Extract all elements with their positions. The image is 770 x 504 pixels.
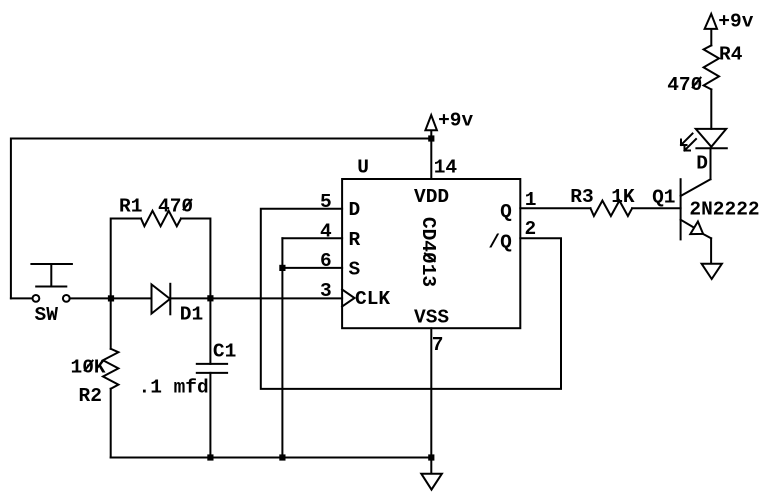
svg-text:6: 6	[320, 250, 332, 272]
wire R3 to Q1 base	[632, 207, 681, 209]
svg-text:CD4013: CD4013	[417, 217, 439, 287]
zero slash 470 R4	[693, 78, 701, 88]
node junction SW/R1/R2	[108, 295, 114, 301]
svg-text:470: 470	[667, 74, 702, 96]
svg-text:D1: D1	[180, 303, 203, 325]
resistor R2	[103, 298, 118, 457]
svg-text:4: 4	[320, 221, 332, 243]
wire pin6 S	[282, 267, 342, 269]
svg-text:.1 mfd: .1 mfd	[139, 376, 209, 398]
zero slash 470 R1	[184, 200, 192, 210]
label CD4013 (rotated)	[417, 217, 439, 287]
wire R/S tie vertical to ground rail	[281, 238, 283, 457]
svg-text:1K: 1K	[611, 186, 635, 208]
node R/S tie	[279, 265, 285, 271]
wire pin4 R	[282, 237, 342, 239]
resistor R4	[704, 29, 719, 129]
svg-text:U: U	[357, 157, 369, 179]
capacitor C1	[197, 298, 227, 457]
wire emitter to ground	[710, 238, 712, 263]
power +9v arrow (IC)	[425, 115, 437, 130]
svg-text:R4: R4	[719, 44, 743, 66]
svg-text:Q1: Q1	[652, 187, 675, 209]
svg-text:D: D	[349, 199, 361, 221]
transistor Q1	[681, 179, 712, 239]
node junction D1/R1/C1	[207, 295, 213, 301]
node C1/rail	[207, 454, 213, 460]
switch SW	[31, 264, 72, 302]
zero slash 10K	[85, 361, 93, 371]
svg-text:CLK: CLK	[355, 288, 390, 310]
ground (bottom)	[421, 474, 442, 490]
power +9v arrow (R4)	[705, 14, 717, 29]
wire pin5 D feedback	[261, 209, 561, 389]
svg-text:/Q: /Q	[488, 232, 512, 254]
svg-text:2N2222: 2N2222	[689, 199, 759, 221]
svg-text:Q: Q	[500, 201, 512, 223]
svg-text:+9v: +9v	[718, 11, 753, 33]
wire collector to LED	[710, 148, 712, 179]
svg-text:D: D	[696, 153, 708, 175]
diode D1	[152, 284, 171, 315]
svg-text:VSS: VSS	[414, 306, 449, 328]
svg-text:470: 470	[158, 196, 193, 218]
svg-text:3: 3	[320, 280, 332, 302]
svg-text:R: R	[349, 229, 361, 251]
ground (emitter)	[702, 264, 722, 279]
node pin7/rail	[428, 454, 434, 460]
resistor R1	[111, 211, 211, 299]
svg-text:S: S	[349, 258, 361, 280]
svg-text:2: 2	[525, 218, 537, 240]
wire bottom ground rail	[111, 457, 432, 459]
wire left to switch	[11, 297, 33, 299]
wire pin14 VDD	[430, 130, 432, 179]
svg-text:1: 1	[525, 189, 537, 211]
svg-text:5: 5	[320, 191, 332, 213]
resistor R3	[591, 201, 633, 216]
svg-text:+9v: +9v	[438, 110, 473, 132]
wire pin1 Q to R3	[520, 207, 590, 209]
wire top rail from left edge to +9v node	[11, 139, 431, 299]
svg-text:R3: R3	[570, 186, 593, 208]
svg-text:SW: SW	[35, 304, 59, 326]
wire switch to diode anode	[70, 297, 151, 299]
LED D	[681, 129, 727, 151]
node +9v/pin14	[428, 135, 434, 141]
node R-S tie/rail	[279, 454, 285, 460]
svg-text:R1: R1	[119, 196, 142, 218]
IC U box	[342, 179, 520, 328]
svg-text:R2: R2	[79, 385, 102, 407]
svg-text:VDD: VDD	[414, 186, 449, 208]
svg-text:14: 14	[434, 157, 458, 179]
svg-text:7: 7	[432, 334, 444, 356]
wire pin7 VSS to ground	[430, 328, 432, 474]
svg-text:C1: C1	[213, 341, 236, 363]
CLK wedge pin 3	[342, 290, 354, 307]
wire diode cathode to IC CLK	[170, 297, 342, 299]
